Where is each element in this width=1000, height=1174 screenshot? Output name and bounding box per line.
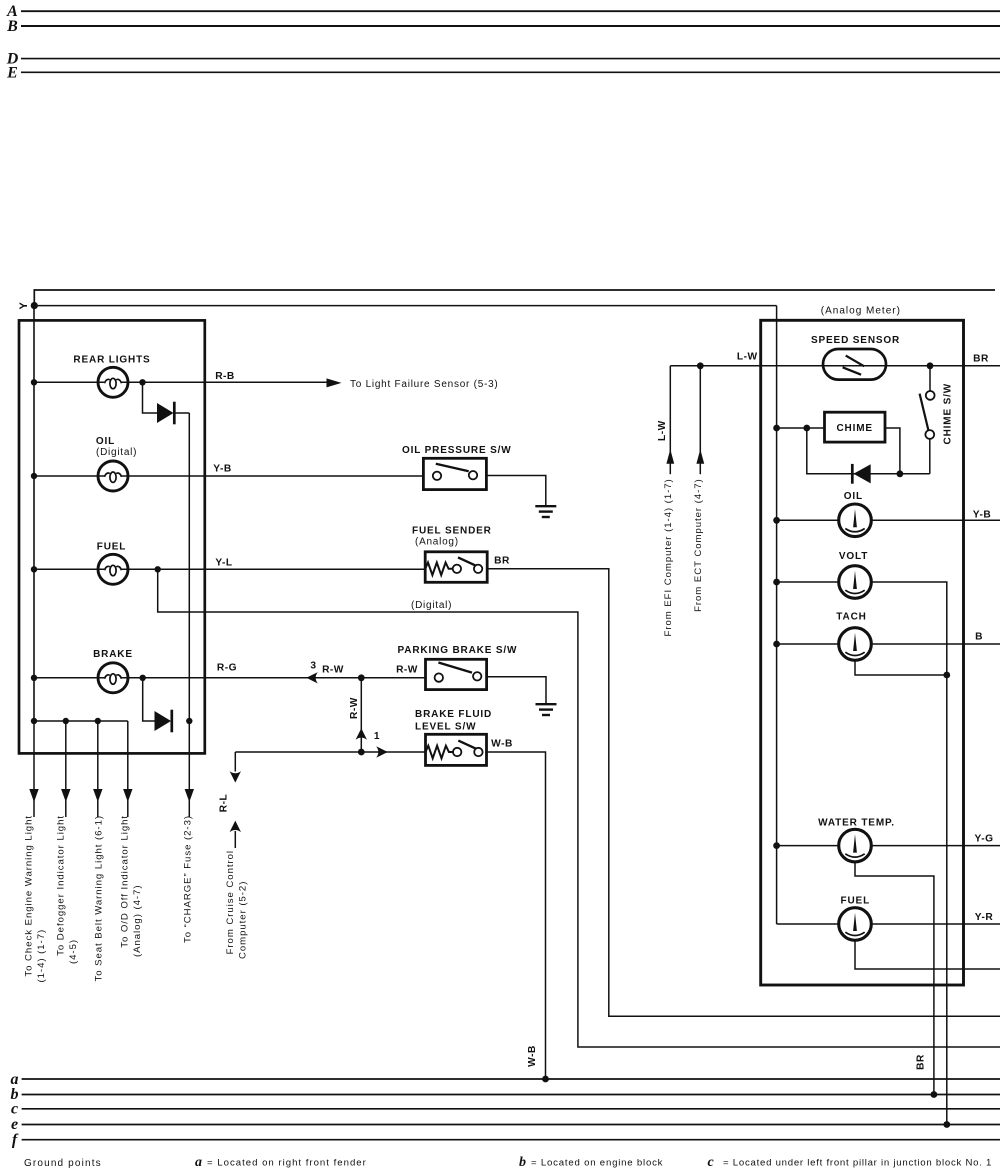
svg-text:CHIME: CHIME [836,423,872,434]
node rear-lights junction [139,379,145,385]
svg-text:R-W: R-W [349,697,360,719]
wire top feed lower to meter bus [34,305,776,307]
arrow 1 (flow up) [356,728,367,740]
svg-text:B: B [975,632,983,643]
wire oil switch to ground [486,476,545,506]
wire digital branch [158,569,1000,1047]
wire R-W vertical [360,678,362,752]
speed sensor SPEED SENSOR [823,349,886,380]
wire to diode D2 [143,678,155,721]
brake fluid level switch box [426,734,487,765]
node rail-defogger [63,718,69,724]
ground rail a [11,1071,1000,1088]
ground rail e [11,1116,1000,1133]
svg-text:BR: BR [494,556,510,567]
svg-text:L-W: L-W [657,420,668,441]
wire chime right loop [885,428,900,474]
wire brake fluid row [235,751,425,753]
svg-text:a: a [195,1155,202,1170]
svg-text:R-L: R-L [219,794,230,812]
wire D1 to charge bus [174,412,189,414]
node volt-tach junction [943,672,950,679]
ground rail f [12,1132,1000,1149]
node Y junction [31,302,38,309]
arrow (flow right) [376,746,388,757]
svg-text:From Cruise Control: From Cruise Control [225,850,236,954]
svg-text:= Located on right front fend: = Located on right front fender [207,1158,367,1169]
warning lights box (combination meter) [19,320,205,753]
wire from ECT computer [699,366,701,474]
node W-B ground a [542,1076,549,1083]
svg-text:(1-4) (1-7): (1-4) (1-7) [36,929,47,983]
svg-text:To O/D Off Indicator Light: To O/D Off Indicator Light [119,815,130,948]
diode D1 [157,402,174,425]
svg-text:1: 1 [374,731,380,742]
svg-text:Y-L: Y-L [215,557,232,568]
wire from EFI computer [669,366,671,474]
fuel sender resistor [425,563,452,576]
svg-text:R-B: R-B [215,371,235,382]
svg-text:(Analog): (Analog) [415,537,459,548]
wire charge vertical [188,413,190,721]
svg-text:WATER TEMP.: WATER TEMP. [818,818,895,829]
parking brake switch box [426,659,487,689]
ground (parking brake) [536,704,557,715]
node chime diode junction left [803,425,810,432]
wire brake fluid out to ground a [487,752,546,1079]
wire parking brake to ground [487,677,546,703]
node rail-seatbelt [95,718,101,724]
wire fuel gauge return [855,940,1000,969]
svg-text:b: b [519,1155,526,1170]
node B rail [6,18,1000,35]
lamp FUEL [98,554,128,584]
svg-text:(Digital): (Digital) [96,447,137,458]
svg-text:Y-R: Y-R [975,912,994,923]
svg-text:REAR LIGHTS: REAR LIGHTS [73,355,150,366]
parking brake contacts [435,673,443,681]
svg-text:BR: BR [916,1054,927,1070]
node volt ground e [943,1121,950,1128]
node charge junction [186,718,192,724]
svg-text:BR: BR [973,354,989,365]
oil pressure switch contacts [433,472,441,480]
wire top feed upper [34,290,995,306]
svg-text:CHIME S/W: CHIME S/W [942,383,953,445]
node BR ground b [931,1091,938,1098]
svg-text:(4-5): (4-5) [68,939,79,964]
node bus-oil [31,473,37,479]
analog meter box [761,320,964,985]
node fuel digital junction [155,566,161,572]
svg-text:Computer (5-2): Computer (5-2) [237,881,248,959]
svg-text:BRAKE FLUID: BRAKE FLUID [415,709,492,720]
chime box CHIME [825,412,886,442]
wire diode row [807,428,930,474]
brake fluid resistor [426,746,453,759]
node chime diode junction right [897,470,904,477]
node chime switch junction [927,362,934,369]
svg-text:R-G: R-G [217,663,237,674]
svg-text:c: c [11,1101,18,1118]
svg-text:R-W: R-W [396,664,418,675]
svg-text:f: f [12,1132,19,1149]
diode D3 (chime) [851,464,854,484]
arrow 3 (flow left) [306,672,318,683]
svg-text:FUEL SENDER: FUEL SENDER [412,525,492,536]
wire tach return [855,660,947,675]
node brake fluid junction [358,749,365,756]
wire bulb feed bus [33,306,35,721]
lamp BRAKE [98,663,128,693]
oil pressure switch box [423,458,486,489]
svg-text:L-W: L-W [737,351,758,362]
svg-text:To Light Failure Sensor (5-3): To Light Failure Sensor (5-3) [350,379,498,390]
svg-text:Y-G: Y-G [974,834,993,845]
wire fuel sender out [487,569,1000,1017]
svg-text:OIL PRESSURE S/W: OIL PRESSURE S/W [402,445,512,456]
svg-text:To Check Engine Warning Light: To Check Engine Warning Light [24,815,35,977]
svg-text:c: c [708,1155,715,1170]
wire L-W horizontal [670,365,823,367]
svg-text:LEVEL S/W: LEVEL S/W [415,721,476,732]
svg-text:To Defogger Indicator Light: To Defogger Indicator Light [55,815,66,956]
svg-text:e: e [11,1116,18,1133]
svg-text:FUEL: FUEL [841,896,871,907]
svg-text:FUEL: FUEL [97,541,127,552]
fuel sender contacts [453,565,461,573]
svg-text:OIL: OIL [844,491,863,502]
lamp REAR LIGHTS [98,367,128,397]
node bus-fuel [31,566,37,572]
node ECT junction [697,362,704,369]
wire lead o/d off [127,721,129,817]
svg-text:= Located under left front pi: = Located under left front pillar in jun… [723,1158,992,1169]
wire water temp return BR [855,862,934,1095]
wire REAR LIGHTS row [34,381,327,383]
svg-text:Y: Y [18,301,30,309]
lamp OIL [98,461,128,491]
svg-text:W-B: W-B [527,1045,538,1067]
node chime bus junction [773,425,780,432]
svg-text:PARKING BRAKE S/W: PARKING BRAKE S/W [398,645,518,656]
node rail-bus [31,718,37,724]
svg-text:TACH: TACH [836,612,866,623]
wire speed sensor row [823,365,1000,367]
node bus-brake [31,675,37,681]
ground rail b [11,1086,1000,1103]
wire lamp return rail [34,720,128,722]
node E rail [6,65,1000,82]
svg-text:R-W: R-W [322,664,344,675]
fuel sender box [425,552,487,583]
svg-text:Y-B: Y-B [213,464,231,475]
wire chime feed [777,427,825,429]
wire lead defogger [65,721,67,817]
wire BRAKE row [34,677,426,679]
node brake junction [140,675,146,681]
ground rail c [11,1101,1000,1118]
wire R-L vertical lower [230,821,241,833]
svg-text:(Analog) (4-7): (Analog) (4-7) [132,885,143,957]
svg-text:To “CHARGE” Fuse (2-3): To “CHARGE” Fuse (2-3) [182,815,193,943]
wire FUEL row [34,568,425,570]
svg-text:BRAKE: BRAKE [93,649,133,660]
wire R-L vertical upper [234,752,236,772]
svg-text:3: 3 [310,660,316,671]
chime switch CHIME S/W [929,366,931,391]
svg-text:(Digital): (Digital) [411,600,452,611]
svg-text:To Seat Belt Warning Light (6-: To Seat Belt Warning Light (6-1) [93,815,104,982]
node D rail [6,51,1000,68]
svg-text:VOLT: VOLT [839,551,868,562]
wire to diode D1 [143,382,158,413]
svg-text:E: E [6,65,18,82]
wire meter bus [776,306,778,924]
brake fluid contacts [453,748,461,756]
svg-text:B: B [6,18,18,35]
svg-text:Y-B: Y-B [973,510,991,521]
wire OIL row [34,475,423,477]
svg-text:(Analog Meter): (Analog Meter) [821,306,901,317]
node parking brake junction [358,674,365,681]
node A rail [6,3,1000,20]
wire lead charge fuse [188,721,190,817]
svg-text:From ECT Computer (4-7): From ECT Computer (4-7) [693,478,704,612]
svg-text:Ground points: Ground points [24,1158,102,1169]
ground (oil pressure) [535,506,556,517]
diode D2 [155,710,172,733]
svg-text:= Located on engine block: = Located on engine block [531,1158,663,1169]
node bus-rear-lights [31,379,37,385]
svg-text:SPEED SENSOR: SPEED SENSOR [811,335,900,346]
wire lead seat-belt [97,721,99,817]
svg-text:W-B: W-B [491,739,513,750]
arrow to light failure sensor [327,378,342,387]
svg-text:From EFI Computer (1-4) (1-7): From EFI Computer (1-4) (1-7) [663,478,674,636]
wire lead check-engine [33,721,35,817]
svg-text:OIL: OIL [96,436,115,447]
